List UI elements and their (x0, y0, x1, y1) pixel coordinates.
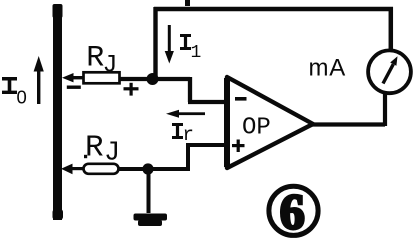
wire: node B to op-amp non-inverting input (step) (119, 145, 226, 171)
op-amp minus input marker (235, 97, 247, 101)
svg-text:R: R (85, 131, 104, 166)
resistor R2 (bottom RJ) (84, 164, 119, 174)
wire: right vertical leg from top wire to meter (389, 7, 394, 51)
arrow I1 (down) (165, 25, 174, 64)
svg-text:6: 6 (280, 183, 305, 239)
wire: left vertical leg from top wire to node A (153, 7, 157, 76)
figure number 6 (circled) (269, 183, 318, 239)
svg-text:OP: OP (242, 114, 271, 141)
node B (junction dot) (142, 163, 153, 174)
bus bar (thick vertical line) (53, 4, 64, 220)
wire: node A to op-amp inverting input (step) (120, 77, 226, 102)
plus label (top resistor) (124, 83, 139, 96)
svg-text:r: r (183, 124, 194, 146)
speck (scan artifact, top) (185, 0, 190, 6)
label RJ (bottom) (84, 131, 120, 169)
arrow into bus (top) (62, 73, 84, 82)
svg-text:J: J (103, 51, 118, 80)
svg-text:0: 0 (17, 87, 27, 108)
ground (134, 214, 168, 227)
svg-text:1: 1 (191, 43, 202, 63)
wire: top horizontal (154, 7, 393, 12)
arrow I0 (up) (34, 56, 44, 104)
wire: op-amp output to meter bottom (311, 93, 385, 126)
label I0 (2, 77, 27, 108)
resistor R1 (top RJ) (84, 72, 120, 83)
label RJ (top) (86, 41, 117, 79)
op-amp plus input marker (232, 140, 245, 153)
label I1 (180, 34, 201, 63)
op-amp U1 (224, 77, 313, 168)
wire: node B to ground (147, 171, 151, 213)
svg-text:mA: mA (309, 55, 347, 82)
svg-text:J: J (104, 138, 120, 168)
label Ir (172, 123, 194, 146)
meter M1 (mA) (368, 50, 411, 93)
minus label (top resistor) (67, 86, 81, 89)
svg-text:R: R (86, 41, 104, 75)
arrow into bus (bottom) (61, 164, 84, 175)
node A (junction dot) (147, 73, 159, 85)
arrow Ir (left) (166, 110, 205, 118)
